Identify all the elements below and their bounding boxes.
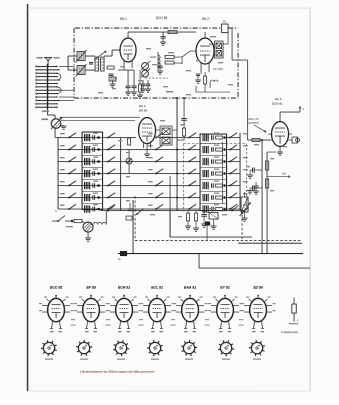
arrow ARV to tube <box>254 125 266 132</box>
terminal 2 (output post) <box>299 107 304 112</box>
trimmer capacitor row 6 right <box>212 195 214 200</box>
wire V3 anode up to output terminal <box>280 112 300 122</box>
wire anode V1a up to shield <box>127 32 129 38</box>
tube V2 EF89 envelope <box>139 118 156 144</box>
band switch S1 contact rung 10 <box>36 96 58 97</box>
label row 7 mid <box>148 205 153 206</box>
trimmer core T between stacks <box>126 150 132 174</box>
fuse F1 on shield top edge <box>222 20 229 33</box>
IF can stack right divider 2 <box>200 155 227 157</box>
band filter row 2 wire <box>58 149 240 151</box>
tube symbol EAA 91 envelope <box>182 298 199 321</box>
switch contact S1.6b <box>107 193 115 199</box>
tube socket pinout 7 <box>249 340 265 360</box>
band switch S1 contact rung 6 <box>36 83 58 84</box>
tube ECC 85 diagonal top pins <box>44 297 69 302</box>
ground below C8 <box>195 80 201 83</box>
value label mark <box>270 158 274 159</box>
junction dots on IF bus <box>176 149 178 199</box>
tube ECL 81 pin number labels <box>151 331 163 332</box>
label 2nF at P1 <box>42 119 49 121</box>
junction blob row 3 right <box>223 160 225 162</box>
trimmer capacitor row 2 left <box>93 147 95 152</box>
tube EF 89 top cap pin <box>90 295 92 299</box>
wire L1 to bandfilter <box>85 55 95 57</box>
heater link mark <box>139 319 144 325</box>
switch contact S1.6d <box>188 193 196 199</box>
resistor R2 (hatched) <box>109 77 116 81</box>
label row 7 left <box>60 205 65 206</box>
value label mark <box>112 88 116 89</box>
IF can stack left divider 6 <box>82 203 103 205</box>
trimmer capacitor row 5 left <box>93 183 95 188</box>
trimmer capacitor row 5 right <box>212 183 214 188</box>
tube EAA 91 diagonal top pins <box>178 297 203 302</box>
switch contact S1.5a <box>68 181 76 187</box>
band switch S1 contact rung 8 <box>36 90 60 91</box>
wire P1 to EF89 (lower) <box>61 120 135 122</box>
caption note 1 (red print) <box>80 370 155 374</box>
switch contact S1.4e <box>229 169 237 175</box>
coil L row 2 left (hatched) <box>85 146 90 153</box>
resistor R1 grid leak <box>107 66 114 69</box>
label contact numbers 4 2 <box>42 111 49 112</box>
capacitor C15 <box>201 211 207 225</box>
ground below R15 <box>193 228 199 231</box>
IF can stack right divider 3 <box>200 167 227 169</box>
trimmer capacitor row 1 left <box>93 135 95 140</box>
IF can stack right divider 4 <box>200 179 227 181</box>
heater link mark <box>205 319 210 325</box>
tube EAA 91 heater pins down <box>184 321 196 329</box>
solid inner rail left riser <box>169 211 171 238</box>
tube ECC 85 right pins <box>64 303 73 312</box>
junction dot plate feed <box>261 139 263 141</box>
tube EZ 80 heater pins down <box>252 321 264 329</box>
junction blob row 7 left <box>93 204 100 210</box>
band switch S1 contact rung 5 <box>36 79 60 80</box>
trimmer capacitor row 4 left <box>93 171 95 176</box>
capacitor C4 below V1a <box>118 68 134 88</box>
ground left of C12 <box>247 188 253 194</box>
wire P1 wiper to EF89 grid (upper) <box>60 116 140 118</box>
junction blob row 1 left <box>93 133 100 139</box>
switch contact right end of row <box>231 206 238 212</box>
potentiometer P1 volume (circle with arrow) <box>51 118 62 130</box>
capacitor C11 bypass <box>253 168 263 173</box>
value label mark <box>218 62 223 63</box>
capacitor C10 AGC <box>181 119 187 129</box>
switch contact S1.5d <box>188 181 196 187</box>
tube symbol EY 81 electrodes <box>221 305 230 319</box>
switch contact S1.7a <box>68 204 76 210</box>
tube ECC 85 left pins <box>39 303 48 312</box>
junction blob row 6 right <box>223 196 225 198</box>
label tube type EZ 80 <box>253 286 262 290</box>
value label mark <box>126 200 130 201</box>
switch contact S1.2b <box>107 145 115 151</box>
switch contact S1.2e <box>229 145 237 151</box>
label row 5 mid <box>148 181 153 182</box>
wire V2 cathode down <box>146 144 148 155</box>
tube EZ 80 left pins <box>241 303 250 312</box>
trimmer capacitor row 4 right <box>212 171 214 176</box>
tube ECL 81 top cap pin <box>156 295 158 299</box>
IF can stack left divider 4 <box>82 179 103 181</box>
ground left of C11 <box>247 170 253 178</box>
wire lower distribution row <box>100 210 245 212</box>
wire ladder to tuner box upper <box>59 65 74 67</box>
ground below C4 <box>125 88 131 95</box>
dashed enclosure bottom rail <box>135 240 302 242</box>
tube ECH 81 heater pins down <box>118 321 130 329</box>
wire P1 wiper down to band filter bus <box>55 128 58 137</box>
ground below C5 <box>131 88 137 95</box>
coil L4 filament choke <box>210 80 218 88</box>
switch contact S1.7e <box>229 204 237 210</box>
ground below C3 <box>160 38 166 45</box>
value label mark <box>163 86 168 87</box>
wire ladder to tuner box lower <box>59 96 74 98</box>
wire ladder tap out <box>59 99 74 101</box>
label row 2 mid <box>148 145 153 146</box>
inner vertical tie right stack <box>222 142 224 204</box>
tube EY 81 heater pins down <box>219 321 231 329</box>
coil tap arc 2 <box>57 87 61 94</box>
tube ECL 81 right pins <box>165 303 174 312</box>
junction blob row 5 left <box>93 181 100 187</box>
wire riser to filter row <box>105 211 107 225</box>
wire bandfilter to triode grid <box>104 50 120 56</box>
value label mark <box>160 120 165 121</box>
IF can stack left (outer case) <box>82 132 103 210</box>
ground below C16 <box>140 89 146 92</box>
switch contact S1.3c <box>155 157 163 163</box>
heater link mark <box>106 319 111 325</box>
band filter row 3 wire <box>58 161 240 163</box>
coil L row 5 right (hatched) <box>203 182 208 189</box>
label tube type ECC 85 <box>50 286 62 290</box>
switch contact S1.4c <box>155 169 163 175</box>
wire from fuse F1 down to AM mixer <box>232 28 248 140</box>
ground below V2 <box>144 154 150 157</box>
switch contact on dashed stub <box>241 208 248 214</box>
switch contact S1.3d <box>188 157 196 163</box>
switch contact S1.5e <box>229 181 237 187</box>
label row 7 right <box>243 205 248 206</box>
wire anode V1b up <box>204 32 206 38</box>
label row 3 mid <box>148 157 153 158</box>
tube symbol EF 89 electrodes <box>87 305 96 319</box>
band switch S1 contact rung 1 <box>36 66 58 67</box>
wire top supply rail in tuner <box>128 31 196 33</box>
resistor R12 <box>66 219 82 227</box>
antenna symbol <box>44 58 52 67</box>
switch contact S1.3a <box>68 157 76 163</box>
wire lamp to ground <box>85 232 91 241</box>
wire ladder to tuner box mid <box>59 89 74 91</box>
trimmer capacitor row 3 right <box>212 159 214 164</box>
output bus wire B (vertical) <box>267 152 276 254</box>
resistor R6 <box>165 61 174 64</box>
tube ECC 85 pin number labels <box>50 331 62 332</box>
switch contact S1.1c <box>155 133 163 139</box>
tube symbol ECC 85 electrodes <box>52 305 61 319</box>
capacitor C8 below V1b <box>196 72 201 80</box>
wire cathode tie to output bus <box>267 151 280 153</box>
tube EY 81 left pins <box>208 303 217 312</box>
tube symbol EY 81 envelope <box>217 298 234 321</box>
value label mark <box>196 60 200 61</box>
wire V2 anode to Tr3 <box>156 129 161 131</box>
coil L5 (bumps) <box>91 222 106 224</box>
label row 2 right <box>243 145 248 146</box>
coil L2 antenna input (AM) <box>76 64 87 77</box>
tuning capacitor C6a (variable, FM osc) <box>141 61 150 70</box>
wire heavy riser x133 <box>132 200 134 254</box>
label row 3 right <box>243 157 248 158</box>
tube EY 81 diagonal top pins <box>213 297 238 302</box>
resistor row 6 right <box>214 193 223 200</box>
tube EF 89 right pins <box>99 303 108 312</box>
band switch S1 contact rung 7 <box>36 86 58 87</box>
coil L row 6 right (hatched) <box>203 194 208 201</box>
tube ECH 81 left pins <box>107 303 116 312</box>
wire R12 to lamp <box>82 221 85 224</box>
coil tap arc 1 <box>57 73 61 80</box>
trimmer arrow across Tr1 <box>94 51 106 60</box>
junction blob row 5 right <box>223 184 225 186</box>
label row 5 left <box>60 181 65 182</box>
value label mark <box>270 190 274 191</box>
resistor R11 on bus B <box>265 179 268 188</box>
label Roe1a (tuner triode 1) <box>120 17 127 21</box>
trimmer capacitor row 6 left <box>93 195 95 200</box>
wire plate feed to V3 <box>248 139 272 141</box>
coil L row 3 right (hatched) <box>203 158 208 165</box>
resistor R7 below V1b <box>204 72 207 92</box>
label ARV note <box>247 117 259 125</box>
value label mark <box>186 94 191 95</box>
tube EF 89 left pins <box>74 303 83 312</box>
wire ladder bottom to volume pot <box>48 109 56 119</box>
resistor row 3 right <box>214 157 223 164</box>
label tube type ECL 81 <box>151 286 163 290</box>
switch contact S1.4d <box>188 169 196 175</box>
ground below R2 <box>110 81 116 87</box>
tube EZ 80 top cap pin <box>257 295 259 299</box>
tube ECL 81 heater pins down <box>151 321 163 329</box>
resistor row 7 right <box>214 204 223 211</box>
tube socket pinout 4 <box>147 340 163 360</box>
value label mark <box>254 144 259 145</box>
capacitor C12 bypass <box>253 186 263 191</box>
label tube type ECH 81 <box>118 286 130 290</box>
value label mark <box>228 84 233 85</box>
FM tuner shield enclosure (dash-dot box) <box>74 28 238 98</box>
tube socket pinout 6 <box>218 340 234 359</box>
trimmer capacitor row 7 right <box>212 207 214 212</box>
switch contact S1.4b <box>107 169 115 175</box>
solid inner rail B+ <box>170 236 252 238</box>
switch contact S1.1e <box>229 133 237 139</box>
resistor row 5 right <box>214 181 223 188</box>
wire V3 cathode down <box>279 147 281 153</box>
wire riser to dashed rail <box>206 226 208 241</box>
arrow wiper P2 <box>240 203 251 217</box>
label row 1 mid <box>148 133 153 134</box>
tube socket pinout 3 <box>113 340 129 360</box>
band filter row 1 wire <box>58 137 240 139</box>
trimmer capacitor row 7 left <box>93 207 95 212</box>
wire Tr4 down <box>211 219 217 229</box>
switch contact S1.6a <box>68 193 76 199</box>
band switch S1 contact rung 4 <box>36 76 58 77</box>
resistor row 4 right <box>214 169 223 176</box>
tube symbol ECH 81 envelope <box>116 298 133 321</box>
value label mark <box>152 64 157 65</box>
tuning capacitor C6b (variable) <box>141 69 150 78</box>
resistor R3 on supply rail <box>168 31 177 34</box>
solid inner rail lower <box>238 242 302 244</box>
resistor R4 cathode <box>139 70 142 95</box>
tube ECH 81 pin number labels <box>118 331 130 332</box>
wire tuner bottom rail <box>196 86 230 92</box>
coil L row 7 left (hatched) <box>85 205 90 212</box>
band filter left bus <box>57 138 59 210</box>
switch contact on dashed edge <box>136 209 143 215</box>
tube ECL 81 left pins <box>140 303 149 312</box>
resistor R10 on bus B <box>265 161 268 170</box>
value label mark <box>180 124 185 125</box>
junction blob row 6 left <box>93 193 100 199</box>
capacitor C3 decoupling <box>161 32 166 38</box>
tube socket pinout 5 <box>181 340 197 360</box>
capacitor C17 under tuning gang <box>146 80 151 89</box>
IF can stack left divider 2 <box>82 155 103 157</box>
ground below C17 <box>145 89 151 92</box>
tube EAA 91 right pins <box>198 303 207 312</box>
label 10.7 MHz <box>213 68 224 71</box>
tube V1a ECC85 first triode envelope <box>120 38 136 62</box>
IF can stack left divider 3 <box>82 167 103 169</box>
resistor R5 <box>165 56 174 59</box>
label tube type EAA 91 <box>184 286 196 290</box>
value label mark <box>150 214 155 215</box>
tube V1a electrodes <box>124 46 133 60</box>
ground below C7 <box>157 68 163 74</box>
tube EF 89 pin number labels <box>85 331 97 332</box>
label 2 Meldungen <box>280 330 298 334</box>
phone jack J1 <box>289 137 300 143</box>
transformer box Tr4 (output) <box>209 208 218 219</box>
trimmer capacitor row 2 right <box>212 147 214 152</box>
ground below V3 <box>277 152 283 155</box>
value label mark <box>118 140 122 141</box>
value label mark <box>246 166 250 167</box>
page bottom edge line <box>28 390 311 392</box>
value label mark <box>126 152 130 153</box>
chassis ground rail <box>118 253 303 255</box>
switch contact S1.2c <box>155 145 163 151</box>
junction blob <box>205 222 210 226</box>
band filter right bus <box>239 133 241 211</box>
switch contact S1.3b <box>107 157 115 163</box>
IF can stack right divider 5 <box>200 191 227 193</box>
label row 6 mid <box>148 193 153 194</box>
switch contact S1.5c <box>155 181 163 187</box>
tube V2 pins <box>144 143 151 149</box>
label row 4 mid <box>148 169 153 170</box>
tube symbol ECL 81 envelope <box>149 298 166 321</box>
tube ECL 81 diagonal top pins <box>145 297 170 302</box>
wire lamp to coil <box>91 225 94 227</box>
IF signal bus from tuner <box>176 97 178 211</box>
tube V1a pins <box>124 61 132 68</box>
wire mixer coupling <box>150 57 182 64</box>
label MHz <box>166 91 173 92</box>
tube ECH 81 top cap pin <box>123 295 125 299</box>
band filter row 5 wire <box>58 185 240 187</box>
resistor R16 between stacks <box>128 138 131 145</box>
wire AGC to V2 grid <box>177 139 184 141</box>
wire grid V1b <box>182 51 196 57</box>
junction blob row 2 left <box>93 145 100 151</box>
wire tap with arrow 40n <box>267 173 290 178</box>
IF can stack right divider 1 <box>200 143 227 145</box>
junction blob row 7 right <box>223 208 225 210</box>
transformer Tr1 FM input bandfilter <box>95 57 104 71</box>
tube V1b ECC85 second triode envelope <box>196 38 214 64</box>
value label mark <box>210 36 216 37</box>
mains rail <box>199 267 310 269</box>
tube V3 ECH81 envelope <box>272 122 289 147</box>
wire L2 to bandfilter <box>85 69 95 71</box>
tube V2 electrodes <box>142 124 152 141</box>
tube symbol ECC 85 envelope <box>48 298 65 321</box>
label tube type EY 81 <box>220 286 230 290</box>
band switch S1 contact rung 11 <box>36 100 60 101</box>
band filter row 7 wire <box>58 208 240 210</box>
IF can stack right divider 6 <box>200 203 227 205</box>
tube EAA 91 top cap pin <box>189 295 191 299</box>
tube symbol EZ 80 envelope <box>250 298 267 321</box>
label switch U1 <box>55 209 57 213</box>
switch contact S1.2d <box>188 145 196 151</box>
switch contact S1.1a <box>68 133 76 139</box>
value label mark <box>186 70 191 71</box>
capacitor C14 ticks <box>128 203 133 211</box>
ground below C15 <box>201 224 207 227</box>
tube symbol EAA 91 electrodes <box>186 305 195 319</box>
switch contact S1.2a <box>68 145 76 151</box>
band switch S1 contact rung 13 <box>36 107 58 108</box>
junction blob row 3 left <box>93 157 100 163</box>
label ECC 85 (tuner tube type) <box>156 16 167 20</box>
tube EZ 80 right pins <box>266 303 275 312</box>
label row 5 right <box>243 181 248 182</box>
coil L row 1 left (hatched) <box>85 134 90 141</box>
heater link mark <box>71 319 76 325</box>
dashed stub right <box>241 210 243 241</box>
tube EAA 91 left pins <box>173 303 182 312</box>
tube symbol EZ 80 electrodes <box>254 305 263 319</box>
coil L row 4 right (hatched) <box>203 170 208 177</box>
switch contact S1.1d <box>188 133 196 139</box>
switch contact S1.7d <box>188 204 196 210</box>
capacitor C1 trimmer <box>89 63 93 65</box>
label Roe3 ECH81 <box>272 97 283 106</box>
